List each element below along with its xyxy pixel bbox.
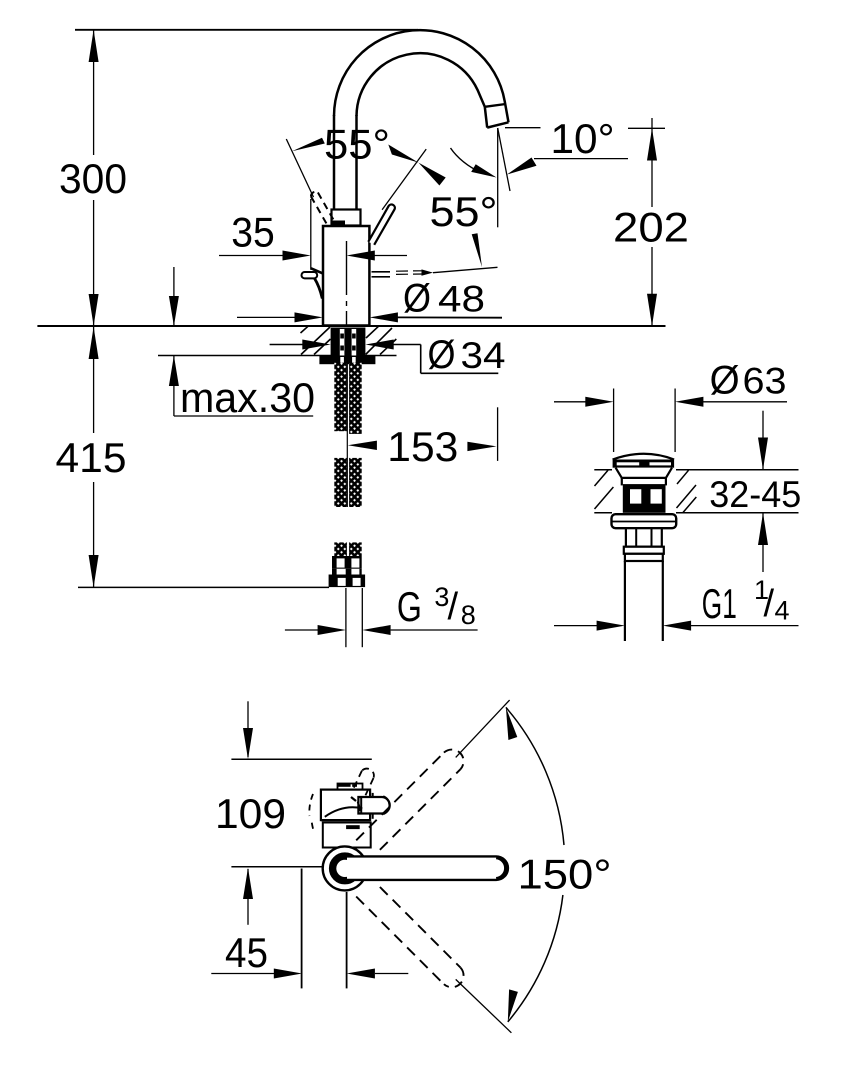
arrow A4 pointing down to L3 (472, 233, 482, 267)
arrow: 415 bottom (89, 555, 99, 587)
arrow: 300 top (89, 30, 99, 62)
hose end fittings (334, 542, 347, 556)
lever knob (plan) (358, 797, 389, 814)
top reference line (75, 29, 418, 31)
counter bottom line (158, 355, 397, 357)
109 dimension vertical (247, 701, 249, 757)
109 axis reference line (231, 866, 322, 868)
G3/8 dimension (285, 629, 478, 631)
153 right reference line (497, 407, 499, 461)
10deg arrow (507, 158, 537, 175)
dashed lever (raised position) (311, 193, 334, 225)
arrow 32-45 bottom (758, 513, 768, 545)
arrow Ø34 right (365, 340, 393, 350)
spout mouth (487, 122, 508, 127)
arrowhead of arc C1 (471, 164, 496, 177)
arrow: max.30 down at counter (169, 296, 179, 326)
arrow Ø34 left (302, 340, 330, 350)
svg-text:/: / (448, 586, 459, 628)
svg-text:202: 202 (613, 204, 689, 251)
dashed raised lever (plan-front) (353, 769, 374, 800)
extension line to arc (lower) (456, 979, 512, 1032)
drain flange below deck (612, 514, 677, 528)
mouth level short line (505, 127, 541, 129)
arrow G1 1/4 right (663, 621, 691, 631)
arrow 35 left (283, 251, 311, 261)
svg-text:35: 35 (231, 209, 275, 256)
line L3 (433, 267, 498, 272)
svg-text:153: 153 (387, 423, 458, 470)
small arrow of spout axis (422, 269, 434, 275)
extension line L1 of raised lever (286, 139, 313, 197)
threaded shank (black) (331, 328, 366, 356)
extension line to arc (upper) (456, 700, 510, 757)
svg-text:32-45: 32-45 (709, 473, 801, 515)
svg-text:G1: G1 (702, 580, 737, 627)
water stream vertical line (497, 128, 499, 227)
neck ring (332, 210, 361, 226)
fitting band 1 (332, 556, 362, 569)
lever handle (solid) (368, 204, 395, 244)
Ø63 dimension line (554, 401, 586, 403)
arrow Ø48 left (295, 312, 323, 322)
dashed handle lower end cap (444, 968, 464, 988)
arrow 153 right (467, 442, 496, 451)
drain cap rim (613, 460, 675, 468)
45 dimension (211, 973, 275, 975)
arc C1 (451, 148, 482, 173)
150 degree arc (506, 707, 564, 845)
drain valve neck (616, 468, 672, 478)
svg-text:max.30: max.30 (180, 374, 315, 421)
neck ring notch (332, 221, 346, 227)
arrow 202 top (647, 128, 657, 160)
Ø34 dimension (270, 345, 499, 374)
spout outer edge (334, 30, 509, 122)
dimension line 300/415 vertical (93, 30, 95, 155)
svg-text:300: 300 (59, 155, 127, 202)
max.30 underline (174, 415, 313, 417)
spout axis marks on body right (372, 271, 424, 277)
sink deck bottom line (594, 512, 612, 514)
svg-text:109: 109 (215, 790, 286, 837)
arrow G3/8 left (318, 625, 346, 635)
svg-text:Ø: Ø (403, 277, 431, 321)
202 vertical line (651, 118, 653, 207)
arrow G1 1/4 left (597, 621, 625, 631)
sink deck top line (594, 469, 612, 471)
32-45 dimension (762, 411, 764, 470)
svg-text:34: 34 (461, 334, 506, 376)
flexible hoses lower segment (334, 458, 347, 507)
arrowhead 150 bottom (508, 989, 518, 1022)
svg-text:415: 415 (56, 434, 127, 481)
35 dimension (219, 255, 407, 257)
drain hex nut (626, 528, 662, 547)
arrow 153 left (348, 441, 377, 450)
Ø48 dimension (237, 316, 502, 318)
swivel joint outer circle (323, 846, 367, 890)
drain nut lower band (624, 547, 664, 554)
109 top reference line (231, 758, 371, 760)
deck hatching right (677, 470, 697, 512)
spout left leg (333, 115, 336, 210)
handle axis extension line L2 (382, 149, 426, 210)
head bottom edge (321, 819, 371, 821)
10deg slanted line (498, 128, 510, 191)
body centerline (346, 241, 348, 326)
shank white slots (340, 329, 345, 356)
capsule right cap thick (496, 858, 506, 879)
dashed handle upper position (356, 753, 460, 850)
svg-text:55°: 55° (430, 188, 498, 235)
counter cross-section hatching right (366, 326, 397, 354)
35 reference vertical line (310, 199, 312, 270)
dashed handle upper end cap (444, 750, 464, 770)
arrow 202 bottom (647, 294, 657, 326)
drain tailpipe (624, 561, 626, 641)
arrow: 415 top (89, 327, 99, 359)
arrow 45 left (274, 969, 302, 979)
svg-text:8: 8 (461, 600, 476, 630)
fitting band 2 (nuts) (329, 575, 366, 588)
arrow: max.30 up at counter bottom (169, 356, 179, 387)
arrow 45 right (347, 969, 375, 979)
hose centerline (346, 362, 348, 507)
svg-text:4: 4 (775, 596, 790, 626)
arrow 32-45 top (758, 438, 768, 470)
bottom reference line (415) (78, 586, 329, 588)
neck section (323, 823, 371, 848)
svg-text:45: 45 (225, 929, 268, 976)
drain slot band (623, 484, 666, 513)
drain ring (625, 554, 663, 561)
arrow A2 tangent on L2 (388, 145, 418, 163)
swivel joint thick ring (333, 856, 358, 881)
arrow A3 tangent on L2 from SE (419, 163, 446, 186)
10deg leader line (534, 158, 628, 160)
arrow 109 top (243, 728, 253, 759)
G1 1/4 dimension (554, 625, 597, 627)
arrow: 300 bottom (89, 294, 99, 326)
counter top line (37, 325, 665, 327)
shank slot dashes (340, 334, 355, 351)
head assembly top (plan) (309, 769, 389, 848)
arrow 35 right (347, 251, 375, 261)
mounting washer below counter (319, 356, 375, 364)
lever silhouette curve (325, 807, 363, 817)
drain cap dome (613, 454, 675, 460)
head top tab (338, 784, 363, 791)
arrowhead 150 top (506, 707, 517, 740)
Ø63 extension lines (613, 389, 615, 453)
svg-text:/: / (764, 583, 775, 625)
svg-text:55°: 55° (324, 121, 390, 168)
svg-text:48: 48 (438, 278, 485, 320)
G3/8 threaded tail (345, 588, 347, 647)
202 top tick (628, 127, 665, 129)
arrow A1 on L1 (292, 138, 325, 152)
pull rod hook on body left (302, 268, 323, 298)
deck hatching left (595, 470, 614, 509)
spout inner edge (357, 53, 488, 127)
lever handle capsule (plan) (347, 856, 508, 880)
body (323, 226, 369, 326)
arrow 109 bottom (243, 868, 253, 899)
arrow Ø63 right (675, 397, 703, 407)
svg-text:10°: 10° (551, 115, 615, 162)
counter cross-section hatching left (301, 326, 331, 354)
fitting gap ticks (332, 569, 337, 575)
svg-text:Ø: Ø (710, 359, 740, 403)
dashed lever tip cap (311, 192, 318, 197)
max.30 dimension (174, 267, 313, 416)
svg-text:Ø: Ø (428, 333, 456, 377)
svg-text:63: 63 (743, 360, 787, 402)
aerator top line (485, 104, 506, 107)
dashed handle lower position (356, 887, 460, 984)
max.30 vertical line (173, 267, 175, 326)
arrow Ø63 left (585, 397, 613, 407)
spout tube in plan (strip) (301, 869, 303, 989)
svg-text:G: G (397, 583, 422, 630)
head main block (321, 790, 370, 821)
arrow Ø48 right (370, 312, 398, 322)
flexible hoses upper segment (334, 363, 347, 432)
svg-text:150°: 150° (518, 851, 612, 898)
202 dimension (628, 118, 665, 326)
arrow G3/8 right (362, 625, 390, 635)
